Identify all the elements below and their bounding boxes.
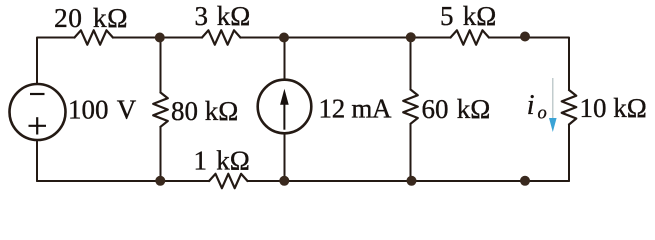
voltage source V circle: [10, 84, 66, 140]
svg-text:100 V: 100 V: [68, 94, 137, 124]
current source I circle: [258, 80, 312, 134]
svg-text:1 kΩ: 1 kΩ: [194, 146, 250, 176]
voltage source plus sign: [29, 117, 47, 134]
voltage source minus sign: [30, 93, 45, 95]
wire current source branch bottom: [284, 133, 286, 181]
wire 80k branch bottom: [160, 127, 162, 181]
node dot bottom at 60k: [407, 176, 417, 186]
wire top between 3k and 5k: [240, 37, 450, 39]
svg-text:o: o: [538, 104, 547, 124]
svg-text:10 kΩ: 10 kΩ: [580, 93, 647, 123]
wire top-left segment: [37, 38, 75, 85]
wire top between 20k and 3k: [113, 37, 202, 39]
resistor 20k zigzag: [75, 30, 113, 44]
svg-text:20 kΩ: 20 kΩ: [54, 2, 128, 33]
wire current source branch top: [284, 38, 286, 80]
wire left below source: [36, 140, 38, 181]
resistor 60k vertical zigzag: [403, 90, 418, 124]
wire bottom right segment: [248, 180, 570, 182]
node dot bottom at current source: [279, 176, 289, 186]
svg-text:5 kΩ: 5 kΩ: [440, 1, 496, 31]
svg-text:12 mA: 12 mA: [319, 93, 393, 123]
resistor 80k vertical zigzag: [153, 93, 168, 127]
current source arrow: [280, 89, 289, 130]
node dot top at 80k: [155, 33, 165, 43]
svg-text:80 kΩ: 80 kΩ: [171, 96, 238, 126]
node dot top right of 5k: [520, 32, 530, 42]
wire 80k branch top: [160, 38, 162, 93]
svg-text:60 kΩ: 60 kΩ: [422, 94, 491, 124]
wire top-right segment: [489, 38, 569, 91]
node dot top at current source: [279, 33, 289, 43]
svg-text:3 kΩ: 3 kΩ: [195, 1, 251, 31]
resistor 10k vertical zigzag: [562, 90, 577, 125]
node dot top at 60k: [406, 32, 416, 42]
wire right below 10k: [568, 125, 570, 182]
resistor 3k zigzag: [202, 30, 240, 44]
resistor 5k zigzag: [451, 30, 489, 44]
node dot bottom at 80k: [155, 176, 165, 186]
current i_o label: [527, 90, 547, 124]
svg-text:i: i: [527, 90, 535, 121]
node dot bottom right: [520, 176, 530, 186]
resistor 1k zigzag: [209, 174, 247, 188]
wire 60k branch top: [410, 38, 412, 90]
wire 60k branch bottom: [410, 124, 412, 181]
wire bottom left segment: [37, 180, 209, 182]
current i_o arrow: [549, 78, 557, 132]
